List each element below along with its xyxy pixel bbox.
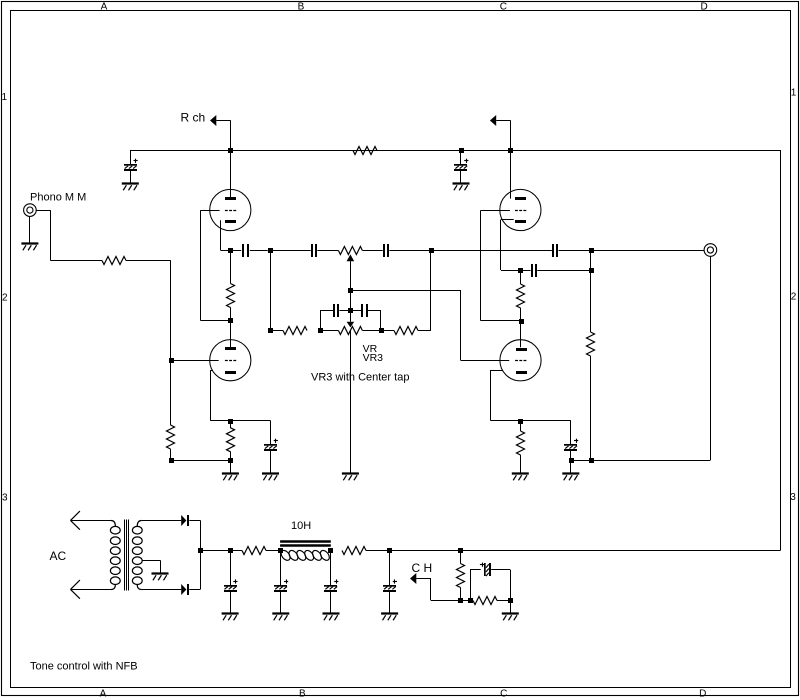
wire R3 bottom to node [170,449,172,460]
wire V2 cathode lead [210,370,213,372]
bracket wire left over VR3 [320,310,322,331]
node junction VR3 left [318,328,323,333]
ground below C15 [323,612,340,614]
wire to R7 [381,330,394,332]
capacitor C17 bias bypass [480,564,484,566]
svg-text:Tone control with NFB: Tone control with NFB [30,660,138,672]
wire C7 to right column [389,250,430,252]
svg-text:C H: C H [412,561,433,575]
wire VR3 center tap to ground [350,331,352,474]
transformer T1 secondary winding [132,526,142,534]
wire V2 cathode to bypass cap [230,420,270,422]
capacitor C13 filter [230,550,232,585]
node junction filter C13 [228,548,233,553]
transformer T1 secondary leads [137,521,141,527]
wire phono connector to ground [29,216,31,243]
resistor R10 output load [590,250,592,332]
wire D2 to B node [189,589,200,591]
triode V4 [500,340,541,381]
wire C6 to VR1 [317,250,338,252]
node junction V4 cathode [518,419,523,424]
wire V4 plate lead [520,321,522,348]
svg-text:B: B [298,1,305,12]
capacitor C8 tone bridge left [333,304,335,317]
capacitor C6 tone [311,244,313,257]
svg-text:2: 2 [2,292,8,303]
node junction C12 bottom [569,458,574,463]
wire C17 branch left [470,570,472,601]
node junction R3 bottom [169,458,174,463]
ground below C13 [222,612,239,614]
ground below C14 [272,612,289,614]
transformer T1 core [124,520,126,591]
resistor R14 heater divider lower [473,597,497,605]
node junction tone in [268,248,273,253]
node junction rail at V3 plate [508,148,513,153]
potentiometer VR1 [338,247,362,255]
wire VR3 right lead [362,330,381,332]
ground below R9 [512,472,529,474]
wire R5 bottom to ground [230,460,232,473]
ground below VR3 center tap [342,472,359,474]
triode V2 [210,340,251,381]
ground below C12 [562,472,579,474]
node junction tone out top [429,248,434,253]
wire tone top row [270,250,311,252]
svg-text:10H: 10H [291,520,311,532]
capacitor C15 filter [330,550,332,585]
svg-text:D: D [700,1,707,12]
svg-text:C: C [500,1,507,12]
capacitor C5 V2 cathode bypass [274,440,278,442]
wire V1 grid lead [200,210,219,212]
svg-text:1: 1 [791,87,797,98]
wire tone left column [270,250,272,331]
node junction tone bottom left [268,328,273,333]
wire to R6 [270,330,283,332]
bracket wire right over VR3 [368,310,381,312]
wire to VR3 [320,330,338,332]
wire VR1 wiper through to VR3 arrow [350,290,352,322]
node junction rectifier output [198,548,203,553]
wire C10 to load node [559,250,592,252]
transformer T1 primary winding [110,526,120,534]
wire D1 to B node [189,520,200,522]
svg-text:A: A [100,688,107,699]
wire to output connector [591,250,704,252]
inductor L1 choke core [280,540,331,543]
wire VR1 to C7 [362,250,382,252]
wire V2 plate lead [230,320,232,347]
wire R12 to B+ riser [366,550,781,552]
ground below C2 [453,182,470,184]
ground below C5 [262,472,279,474]
wire V3 plate lead [510,150,512,199]
resistor R5 V2 cathode [230,421,232,428]
inductor L1 choke winding [279,549,292,562]
resistor R8 SRPP cathode right [520,270,522,284]
wire R2 to V2 grid column [126,260,171,262]
svg-text:VR3 with Center tap: VR3 with Center tap [311,371,409,383]
resistor R11 filter [242,547,266,555]
wire R3 bottom to V2 cathode net [171,460,231,462]
node junction heater branch [458,548,463,553]
resistor R2 input series [102,257,126,265]
node junction choke right [328,548,333,553]
svg-text:3: 3 [2,492,8,503]
connector J2 output [704,244,717,257]
ground secondary center tap [152,572,169,574]
capacitor C16 filter [389,550,391,585]
connector J1 phono input [24,204,37,217]
diode D1 rectifier top [181,515,186,526]
resistor R13 heater divider upper [460,550,462,563]
wire ground node down [510,600,512,614]
node junction V3 cathode [518,268,523,273]
node junction V2 grid [169,358,174,363]
ground below heater divider [502,612,519,614]
ground below C16 [381,612,398,614]
node junction C11 to load column [589,268,594,273]
wire R11 to choke [266,550,281,552]
wire C12 to ground [570,460,572,474]
svg-text:1: 1 [2,92,8,103]
wire R14 to ground node [497,600,510,602]
resistor R9 V4 cathode [520,421,522,431]
node junction SRPP mid left [228,318,233,323]
node junction SRPP mid right [519,319,524,324]
node junction V1 cathode [228,248,233,253]
wire phono input to grid resistor [36,210,50,212]
wire NFB to V4 grid [350,290,460,292]
svg-text:Phono M M: Phono M M [30,191,86,203]
wire VR1 wiper down [350,261,352,290]
triode V1 [210,189,251,230]
wire V1 plate lead [230,150,232,197]
triode V3 [500,189,541,230]
arrow AC top [71,511,80,520]
node junction NFB takeoff [348,288,353,293]
wire C H arrow to bias node [416,578,431,580]
capacitor C10 output series [552,244,554,257]
wire C17 branch right [491,569,510,571]
wiper arrow VR3 [347,322,355,328]
wire tone right column up [418,330,431,332]
capacitor C1 rail decoupling left [130,150,132,165]
arrow AC bottom [71,580,80,589]
ground below J1 [21,242,38,244]
svg-text:3: 3 [790,492,796,503]
svg-text:R ch: R ch [181,111,206,125]
svg-text:D: D [699,688,706,699]
wire C8 to wiper node [339,310,350,312]
wire grid column down to R3 [170,360,172,425]
svg-text:2: 2 [791,292,797,303]
wire B+ rail top [130,150,780,152]
wire PSU rail [200,550,242,552]
ground below C1 [122,182,139,184]
node junction R14 left [468,598,473,603]
svg-text:AC: AC [50,549,67,563]
arrow R ch output [210,115,216,126]
wire wiper node to C9 [350,310,361,312]
svg-text:B: B [299,688,306,699]
transformer T1 primary leads [71,520,112,522]
wiper arrow VR1 [347,254,355,261]
resistor R12 filter [342,547,366,555]
resistor R1 rail dropping [353,147,377,155]
node junction R5 bottom [228,458,233,463]
wire bias node pair [460,600,473,602]
node junction V2 cathode [228,419,233,424]
node junction filter C16 [387,548,392,553]
capacitor C14 filter [280,550,282,585]
node junction rail at C2 [459,148,464,153]
node junction wiper mid [348,308,353,313]
wire secondary center tap [142,560,161,562]
node junction VR3 right [379,328,384,333]
ground below R5 [222,472,239,474]
resistor R3 grid leak [167,425,175,449]
wire V2 grid lead [171,360,219,362]
capacitor C3 V1 output coupling [230,250,241,252]
wire V3 grid lead [481,210,510,212]
node junction choke left [278,548,283,553]
capacitor C11 right coupling [521,270,531,272]
svg-text:VR3: VR3 [363,352,384,364]
wire B+ rail right side down [780,150,782,550]
wire output return [571,460,591,462]
arrow C H heater supply [410,573,416,584]
resistor R6 tone [283,327,307,335]
node junction R10 bottom [589,458,594,463]
resistor R4 SRPP cathode [230,250,232,284]
potentiometer VR3 with center tap [338,327,362,335]
resistor R7 tone [394,327,418,335]
node junction R14 right [508,598,513,603]
node junction load top [589,248,594,253]
node junction heater bias [458,598,463,603]
svg-text:C: C [500,688,507,699]
arrow L ch output [490,115,496,126]
capacitor C9 tone bridge right [361,304,363,317]
wire V4 cathode to bypass cap [520,420,571,422]
svg-text:A: A [101,1,108,12]
wire tone out to C10 [431,250,552,252]
capacitor C2 rail decoupling right [460,150,462,165]
diode D2 rectifier bottom [181,584,186,595]
wire V4 cathode lead [491,370,503,372]
wire V1 cathode lead [220,220,222,250]
node junction rail at V1 plate [228,148,233,153]
capacitor C12 V4 cathode bypass [574,440,578,442]
capacitor C7 tone [383,244,385,257]
wire V3 cathode lead [501,219,514,221]
